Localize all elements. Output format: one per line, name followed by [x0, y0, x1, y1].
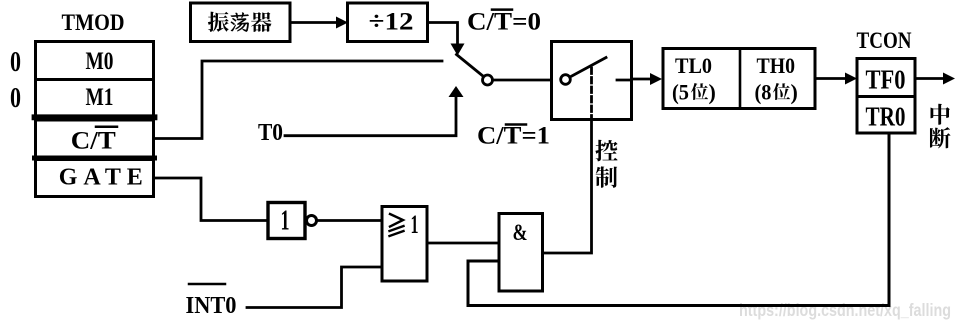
svg-text:(8: (8 [755, 80, 772, 105]
label 0 for M0 [10, 47, 21, 78]
svg-text:TCON: TCON [857, 28, 912, 53]
wire TR0 to AND gate input [468, 133, 889, 306]
wire AND output up to control box [543, 120, 592, 254]
svg-text:): ) [709, 80, 716, 105]
wire INT0 to OR input [247, 267, 382, 308]
svg-text:M0: M0 [86, 48, 114, 75]
register TCON title [857, 28, 912, 53]
svg-text:TR0: TR0 [866, 102, 906, 132]
wire OR output to AND input [427, 242, 499, 245]
svg-text:): ) [791, 80, 798, 105]
svg-text:1: 1 [281, 206, 290, 237]
register row separator bands [35, 117, 155, 158]
svg-text:GATE: GATE [59, 165, 143, 191]
svg-text:https://blog.csdn.net/xq_falli: https://blog.csdn.net/xq_falling [739, 300, 951, 320]
register TMOD title [62, 10, 125, 35]
watermark [739, 300, 951, 320]
wire inverter to OR input [317, 219, 383, 222]
label INT0 (active-low) [186, 284, 237, 319]
AND gate [499, 214, 543, 292]
svg-text:TF0: TF0 [866, 65, 906, 95]
oscillator box (zhendangqi) [191, 3, 291, 42]
svg-text:TH0: TH0 [757, 53, 796, 78]
svg-text:C/T=1: C/T=1 [477, 123, 550, 150]
controlled switch box [552, 42, 632, 120]
label 0 for M1 [10, 83, 21, 114]
wire TF0 to interrupt [915, 73, 955, 85]
svg-text:C/T=0: C/T=0 [467, 9, 541, 36]
svg-text:T0: T0 [258, 120, 283, 146]
svg-text:(5: (5 [672, 80, 689, 105]
svg-text:TMOD: TMOD [62, 10, 125, 35]
OR gate (>=1) [382, 207, 427, 282]
inverter gate 1 with bubble [268, 203, 317, 239]
label zhongduan (interrupt) [930, 104, 951, 149]
wire T0 to switch contact C/T=1 [285, 86, 464, 136]
svg-text:INT0: INT0 [186, 293, 237, 319]
svg-text:0: 0 [10, 83, 21, 114]
wire switch pivot to control gate box [493, 79, 552, 82]
register bit M0 [36, 42, 154, 80]
switch S blade and pivot [457, 55, 493, 86]
label kongzhi (control) [595, 140, 617, 188]
register bit C/T [36, 120, 154, 158]
wire control box to TL0 [632, 73, 663, 85]
wire divider to switch contact C/T=0 [428, 23, 465, 56]
label C/T=0 [467, 9, 541, 36]
svg-text:0: 0 [10, 47, 21, 78]
label C/T=1 [477, 123, 550, 150]
svg-text:1: 1 [411, 210, 419, 239]
divide-by-12 box [348, 3, 428, 42]
counter TL0/TH0 box [663, 49, 815, 109]
svg-text:÷12: ÷12 [369, 9, 414, 36]
wire oscillator to divider [290, 17, 348, 29]
svg-text:&: & [513, 220, 528, 245]
svg-text:C/T: C/T [71, 128, 116, 155]
register bit M1 [36, 80, 154, 117]
register bit TR0 [857, 97, 915, 134]
svg-text:TL0: TL0 [675, 53, 712, 78]
wire TH0 to TF0 [815, 73, 857, 85]
wire C/T bit to switch throw contact [154, 61, 443, 139]
register bit TF0 [857, 59, 915, 97]
svg-text:M1: M1 [86, 84, 114, 111]
label T0 [258, 120, 283, 146]
register bit GATE [36, 160, 154, 197]
wire GATE bit to inverter [154, 178, 267, 221]
